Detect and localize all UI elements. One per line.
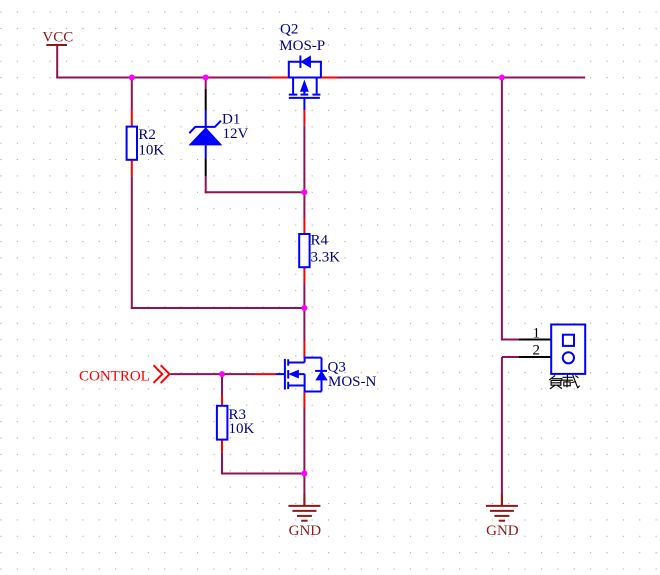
svg-text:GND: GND xyxy=(486,523,519,539)
svg-text:2: 2 xyxy=(533,343,541,359)
svg-text:12V: 12V xyxy=(223,126,249,142)
svg-text:R2: R2 xyxy=(138,127,156,143)
svg-text:R4: R4 xyxy=(311,233,329,249)
svg-text:MOS-P: MOS-P xyxy=(279,38,325,54)
svg-text:GND: GND xyxy=(289,523,322,539)
svg-text:CONTROL: CONTROL xyxy=(79,369,150,385)
svg-text:10K: 10K xyxy=(138,143,164,159)
svg-text:VCC: VCC xyxy=(42,29,73,45)
svg-text:3.3K: 3.3K xyxy=(311,249,341,265)
svg-text:MOS-N: MOS-N xyxy=(328,374,377,390)
svg-text:1: 1 xyxy=(533,326,541,342)
svg-text:10K: 10K xyxy=(229,421,255,437)
svg-text:Q2: Q2 xyxy=(280,22,298,38)
